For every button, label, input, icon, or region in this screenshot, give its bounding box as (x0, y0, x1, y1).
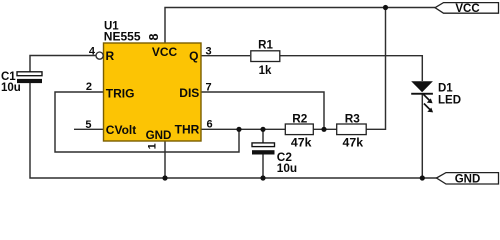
IC U1 NE555 timer body (104, 21, 202, 142)
node GND tag (437, 173, 499, 186)
wire CVolt pin5 stub (74, 128, 104, 130)
resistor R1 (251, 39, 280, 77)
svg-text:R2: R2 (292, 111, 308, 125)
svg-text:Q: Q (189, 49, 198, 63)
svg-text:VCC: VCC (152, 45, 178, 59)
svg-text:47k: 47k (291, 136, 312, 150)
wire C2 top (262, 129, 264, 142)
resistor R3 (337, 111, 367, 149)
svg-text:NE555: NE555 (104, 30, 141, 44)
svg-text:DIS: DIS (179, 86, 199, 100)
svg-text:2: 2 (86, 81, 92, 93)
svg-text:1: 1 (147, 143, 159, 149)
svg-text:47k: 47k (343, 136, 364, 150)
svg-text:D1: D1 (438, 83, 453, 95)
node VCC tag (435, 3, 499, 15)
wire R2 to R3 (313, 128, 336, 130)
svg-text:6: 6 (207, 119, 213, 131)
wire DIS pin7 down to R2/R3 junction (201, 92, 324, 129)
wire GND pin1 down to ground rail (164, 141, 166, 178)
diode D1 LED (411, 81, 461, 112)
svg-text:7: 7 (206, 82, 212, 94)
wire C1 bottom to ground rail (30, 83, 437, 178)
svg-text:TRIG: TRIG (106, 87, 135, 101)
svg-text:R: R (106, 49, 115, 63)
svg-text:VCC: VCC (455, 3, 479, 15)
wire R1 to LED anode (279, 56, 422, 81)
node junction LED ground (420, 175, 425, 180)
resistor R2 (285, 111, 313, 149)
wire reset pin4 to C1 top (30, 56, 96, 72)
node junction THR/C2 (260, 127, 265, 132)
svg-text:LED: LED (438, 95, 461, 107)
svg-text:R3: R3 (345, 111, 361, 125)
pin 4 inversion bubble (96, 52, 103, 59)
wire THR pin6 to R2 (201, 128, 285, 130)
wire R3 up to VCC rail (366, 8, 385, 130)
svg-text:THR: THR (175, 123, 200, 137)
svg-text:8: 8 (147, 33, 161, 40)
svg-text:5: 5 (85, 119, 91, 131)
capacitor C1 (1, 71, 42, 94)
capacitor C2 (252, 143, 297, 175)
svg-text:GND: GND (455, 173, 481, 185)
svg-text:1k: 1k (259, 65, 272, 77)
svg-text:10u: 10u (277, 161, 297, 175)
node junction THR/TRIG (236, 127, 241, 132)
svg-text:CVolt: CVolt (106, 123, 136, 137)
svg-text:GND: GND (146, 129, 172, 142)
node junction C2 ground (260, 175, 265, 180)
node junction VCC rail (383, 5, 388, 10)
node junction pin1 ground (162, 175, 167, 180)
wire Q pin3 to R1 (201, 55, 250, 57)
svg-text:10u: 10u (1, 82, 21, 94)
node junction DIS between R2 R3 (321, 127, 326, 132)
svg-text:4: 4 (89, 46, 96, 58)
wire VCC top rail from pin 8 to VCC tag (165, 8, 435, 44)
wire LED cathode down to ground rail (421, 94, 423, 178)
svg-text:3: 3 (206, 46, 212, 58)
wire C2 bottom to ground rail (262, 154, 264, 178)
wire TRIG pin2 loop down to THR line (55, 92, 239, 152)
svg-text:R1: R1 (258, 39, 273, 51)
